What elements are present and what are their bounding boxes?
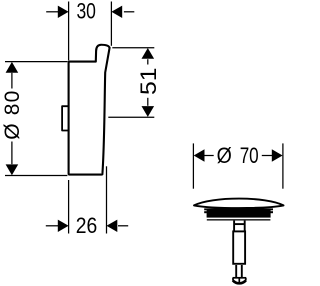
- svg-text:51: 51: [136, 68, 161, 96]
- svg-text:30: 30: [76, 0, 96, 24]
- svg-text:Ø: Ø: [217, 143, 232, 168]
- svg-text:Ø 80: Ø 80: [1, 91, 24, 140]
- svg-text:26: 26: [76, 213, 98, 238]
- svg-text:70: 70: [240, 143, 259, 168]
